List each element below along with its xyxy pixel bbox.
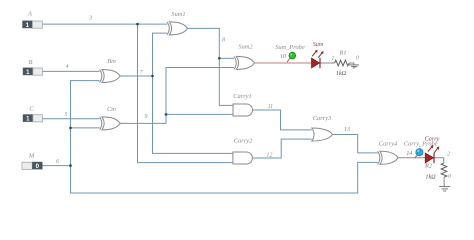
input M (digital constant, value 0) — [22, 153, 43, 171]
wire net 3 (A to Sum1 top input) — [43, 23, 168, 25]
svg-text:Carry: Carry — [425, 137, 440, 143]
input A (digital constant, value 1) — [22, 11, 42, 29]
wire net 11 (Carry1 output to Carry3 top input) — [253, 110, 312, 130]
svg-text:Sum2: Sum2 — [238, 44, 253, 51]
probe Carry_Probe (blue) — [404, 141, 438, 158]
wire net 6 (M to junction) — [43, 165, 71, 167]
svg-text:1kΩ: 1kΩ — [425, 174, 436, 180]
AND gate Carry1 — [233, 93, 253, 116]
svg-text:Bm: Bm — [107, 58, 116, 65]
svg-text:A: A — [27, 11, 32, 18]
svg-text:0: 0 — [448, 174, 451, 180]
svg-text:Cm: Cm — [107, 106, 116, 113]
XOR gate Bm — [100, 58, 121, 83]
node junction on net 3 — [136, 23, 139, 26]
svg-text:R2: R2 — [424, 164, 432, 170]
XOR gate Cm — [100, 106, 121, 130]
node junction on net 7 — [151, 75, 154, 78]
svg-text:4: 4 — [66, 64, 69, 70]
node junction on net 9 — [165, 113, 168, 116]
wire net 2 (LED Carry cathode to R2) — [434, 158, 443, 163]
ground (bottom, net 0) — [439, 187, 450, 191]
wire net 12 (Carry2 output to Carry3 bottom input) — [253, 139, 312, 158]
svg-text:6: 6 — [56, 159, 59, 165]
svg-text:R1: R1 — [339, 50, 347, 56]
svg-text:Sum1: Sum1 — [171, 11, 185, 18]
resistor R1 (1k ohm, horizontal) — [335, 50, 359, 77]
svg-text:3: 3 — [88, 16, 92, 22]
AND gate Carry2 — [233, 138, 253, 164]
wire net 5 (C to Cm top input) — [43, 118, 100, 120]
OR gate Carry3 — [312, 115, 333, 141]
node junction net6 at Cm branch — [69, 127, 72, 130]
node junction net6 at M wire — [69, 164, 72, 167]
wire net 9 branch (junction to Carry1 bottom input) — [166, 113, 233, 115]
wire net 4 (B to Bm top input) — [43, 70, 100, 72]
XOR gate Carry4 — [378, 140, 398, 164]
LED Carry (red) — [425, 137, 440, 164]
svg-text:Sum: Sum — [313, 42, 324, 48]
svg-text:5: 5 — [65, 112, 68, 118]
LED Sum (red) — [312, 42, 324, 68]
input C (digital constant, value 1) — [23, 106, 43, 123]
wire net 3 riser (A junction down to Carry2 bottom input) — [138, 24, 233, 163]
wire net 8 branch (junction to Sum2 top input) — [219, 57, 234, 59]
wire net 0b (R2 to ground) — [443, 177, 445, 186]
svg-text:Carry4: Carry4 — [379, 140, 398, 147]
svg-text:8: 8 — [222, 38, 225, 44]
svg-text:12: 12 — [267, 153, 273, 159]
wire net 1 (LED Sum cathode to R1) — [320, 62, 334, 64]
wire net 6 riser up (junction to Bm bottom input) — [71, 81, 100, 166]
wire net 0 (R1 to ground) — [349, 63, 354, 65]
svg-text:Carry2: Carry2 — [234, 138, 253, 145]
svg-text:Sum_Probe: Sum_Probe — [275, 44, 305, 51]
input B (digital constant, value 1) — [23, 59, 43, 76]
resistor R2 (1k ohm, vertical) — [424, 163, 451, 180]
svg-text:M: M — [28, 153, 35, 160]
svg-text:14: 14 — [406, 151, 412, 157]
svg-text:10: 10 — [280, 54, 286, 60]
wire net 10 red (Sum2 output to LED Sum anode) — [255, 62, 312, 64]
svg-text:9: 9 — [145, 114, 148, 120]
svg-text:2: 2 — [447, 151, 450, 157]
svg-text:B: B — [29, 59, 33, 66]
XOR gate Sum1 — [167, 11, 188, 35]
svg-text:C: C — [29, 106, 34, 113]
wire net 13 (Carry3 output to Carry4 top input) — [333, 135, 378, 153]
svg-text:0: 0 — [356, 56, 359, 62]
wire net 7 riser (up to Sum1 bottom input, down to Carry2 top input) — [153, 33, 233, 153]
wire net 9 (Cm output, up to Sum2 bottom input) — [120, 68, 234, 124]
svg-text:Carry1: Carry1 — [233, 93, 251, 100]
wire net 6 branch (junction to Cm bottom input) — [71, 127, 100, 129]
svg-text:1: 1 — [331, 56, 334, 62]
wire net 14 (Carry4 output to LED Carry anode) — [398, 157, 425, 159]
wire net 8 (Sum1 output, down to Sum2 top input and Carry1 top input) — [188, 28, 233, 105]
node junction on net 8 — [218, 57, 221, 60]
svg-text:1kΩ: 1kΩ — [336, 71, 347, 77]
ground (top, net 0) — [349, 65, 359, 68]
svg-text:13: 13 — [344, 127, 350, 133]
svg-text:Carry3: Carry3 — [313, 115, 331, 122]
svg-text:11: 11 — [268, 104, 274, 110]
wire net 6 bottom run (junction down, along bottom, up to Carry4 bottom input) — [71, 162, 378, 193]
XOR gate Sum2 — [234, 44, 255, 70]
wire net 7 (Bm output to junction) — [120, 75, 152, 77]
probe Sum_Probe (green, on) — [275, 44, 305, 62]
